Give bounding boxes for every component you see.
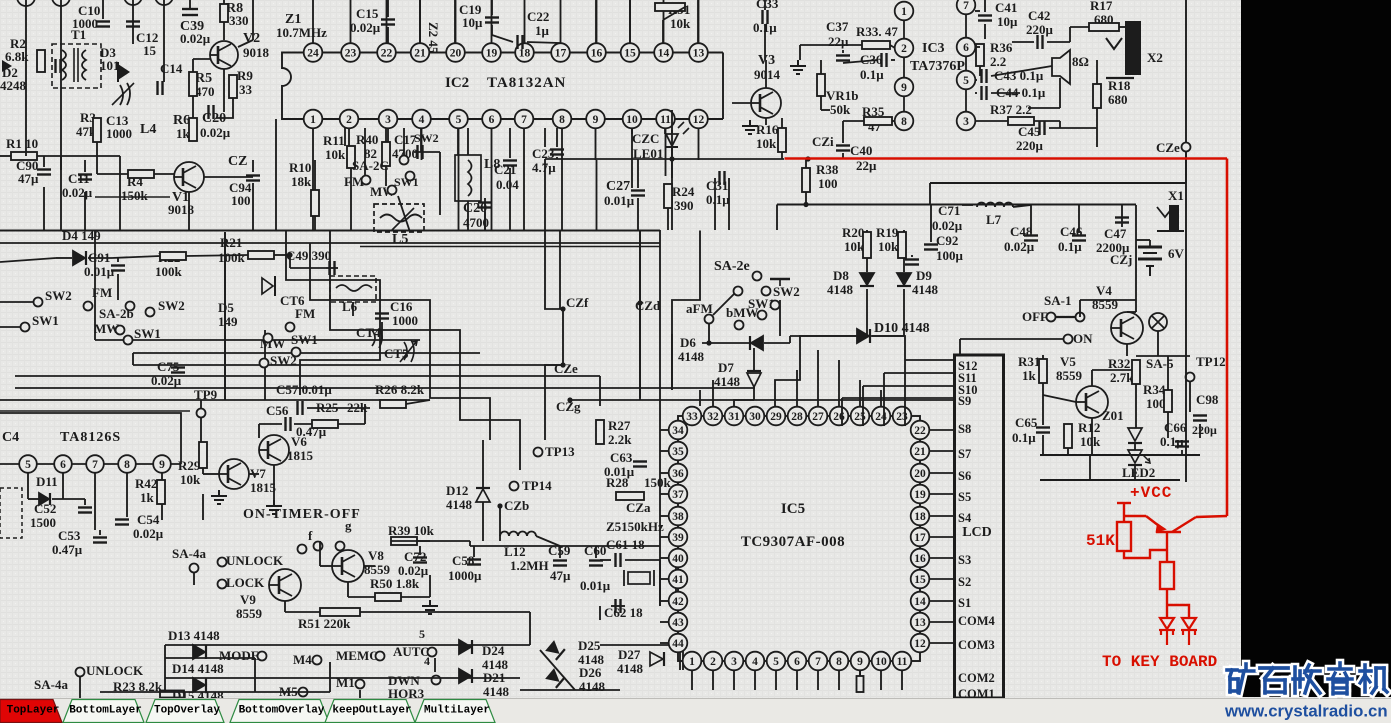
svg-text:12: 12 bbox=[693, 114, 705, 126]
wire bbox=[350, 168, 352, 230]
wire IC2 top pin lead bbox=[386, 0, 388, 43]
wire bbox=[119, 156, 121, 230]
switch contact SW1 bbox=[21, 323, 30, 332]
wire bbox=[1091, 418, 1093, 455]
IC3 pin 3 bbox=[957, 112, 976, 131]
transistor V9 bbox=[269, 569, 301, 601]
switch M5 bbox=[299, 688, 308, 697]
svg-text:CZa: CZa bbox=[626, 500, 651, 515]
resistor R29 bbox=[199, 442, 207, 468]
svg-text:14: 14 bbox=[914, 596, 926, 608]
resistor R2 bbox=[37, 50, 45, 72]
svg-text:M4: M4 bbox=[293, 652, 312, 667]
IC2 pin 12 bbox=[689, 110, 708, 129]
wire bbox=[556, 128, 558, 147]
wire vert x660 bbox=[659, 230, 661, 546]
capacitor C36 bbox=[882, 53, 887, 67]
wire bbox=[728, 178, 730, 230]
switch SW2 ground bar bbox=[770, 278, 790, 280]
wire bbox=[960, 338, 1063, 340]
IC2 pin 17 bbox=[551, 43, 570, 62]
capacitor C17 bbox=[418, 145, 423, 159]
red transistor emitter top bar bbox=[1117, 502, 1131, 504]
IC5 pin 40 bbox=[669, 549, 688, 568]
svg-text:C22: C22 bbox=[527, 9, 549, 24]
wire bbox=[84, 160, 86, 172]
wire bbox=[1136, 239, 1150, 241]
IC2 pin 13 bbox=[689, 43, 708, 62]
wire bbox=[320, 565, 332, 567]
svg-text:100μ: 100μ bbox=[936, 248, 964, 263]
svg-text:S3: S3 bbox=[958, 553, 971, 567]
svg-text:C36: C36 bbox=[860, 52, 883, 67]
svg-text:8: 8 bbox=[124, 459, 130, 471]
capacitor in T1 bbox=[56, 59, 61, 73]
wire IC5 bottom lead bbox=[712, 670, 714, 690]
wire y159 run bbox=[545, 158, 672, 160]
svg-text:CZi: CZi bbox=[812, 134, 834, 149]
svg-text:4.7μ: 4.7μ bbox=[532, 160, 556, 175]
wire IC5 left lead bbox=[660, 557, 669, 559]
wire bottom rail LED row bbox=[1040, 454, 1200, 456]
svg-text:0.02μ: 0.02μ bbox=[398, 563, 429, 578]
inductor L5 winding bbox=[380, 215, 422, 222]
switch contact bbox=[314, 542, 323, 551]
svg-text:10k: 10k bbox=[670, 16, 691, 31]
IC3 pin 9 bbox=[895, 78, 914, 97]
wire bbox=[0, 258, 56, 262]
wire IC2 top pin lead bbox=[312, 0, 314, 43]
resistor R51 bbox=[320, 608, 360, 616]
wire bbox=[1089, 455, 1091, 480]
wire bbox=[348, 596, 375, 598]
wire bbox=[99, 530, 101, 535]
svg-text:UNLOCK: UNLOCK bbox=[226, 553, 284, 568]
switch contact FM bbox=[84, 302, 93, 311]
wire bbox=[0, 410, 190, 412]
svg-text:25: 25 bbox=[854, 411, 866, 423]
capacitor C54 bbox=[115, 520, 129, 525]
svg-text:23: 23 bbox=[345, 48, 357, 60]
wire bbox=[975, 92, 977, 94]
wire IC2 top pin lead bbox=[491, 0, 493, 43]
svg-text:D12: D12 bbox=[446, 483, 468, 498]
svg-text:33: 33 bbox=[239, 82, 253, 97]
wire bbox=[764, 342, 790, 344]
svg-text:13: 13 bbox=[914, 617, 926, 629]
wire bbox=[274, 254, 290, 256]
wire bbox=[781, 152, 783, 159]
wire bbox=[326, 267, 338, 269]
wire bbox=[132, 353, 134, 365]
switch contact bbox=[146, 308, 155, 317]
wire horizontal bus y243 bbox=[0, 242, 660, 244]
red resistor 51K bbox=[1117, 522, 1131, 551]
transistor V5 bbox=[1076, 386, 1108, 418]
resistor R24 bbox=[664, 184, 672, 208]
wire IC2 bottom pin lead bbox=[421, 128, 423, 160]
wire bbox=[347, 582, 349, 597]
red wire to diodes bbox=[1167, 589, 1189, 618]
svg-text:680: 680 bbox=[1108, 92, 1128, 107]
wire bbox=[682, 645, 684, 670]
resistor R16 bbox=[778, 128, 786, 152]
wire bbox=[930, 205, 932, 242]
svg-text:R21: R21 bbox=[220, 235, 242, 250]
resistor R23 bbox=[160, 691, 184, 698]
wire bbox=[314, 216, 316, 230]
wire top supply rail bbox=[930, 182, 1186, 184]
wire bbox=[387, 27, 389, 43]
capacitor C45 bbox=[1040, 121, 1045, 135]
wire bbox=[1199, 424, 1201, 438]
node CZe2 bbox=[1182, 143, 1191, 152]
red transistor Q key bbox=[1124, 516, 1227, 532]
svg-text:8559: 8559 bbox=[1056, 368, 1083, 383]
resistor R38 bbox=[802, 168, 810, 192]
wire bbox=[1096, 60, 1098, 84]
varicap CT4 bbox=[372, 328, 382, 348]
wire bbox=[60, 156, 62, 170]
wire bbox=[132, 0, 134, 44]
svg-text:11: 11 bbox=[897, 656, 908, 668]
wire bbox=[79, 677, 81, 698]
wire bbox=[385, 166, 387, 186]
svg-text:D27: D27 bbox=[618, 647, 641, 662]
IC5 pin 38 bbox=[669, 507, 688, 526]
svg-text:40: 40 bbox=[672, 553, 684, 565]
wire IC2 bottom pin lead bbox=[523, 128, 525, 160]
wire bbox=[232, 98, 234, 112]
resistor R35 bbox=[864, 117, 892, 125]
IC5 pin 6 bbox=[788, 652, 807, 671]
wire bbox=[391, 540, 430, 542]
IC2 pin 18 bbox=[515, 43, 534, 62]
svg-text:100: 100 bbox=[818, 176, 838, 191]
C4 pin 6 bbox=[54, 455, 72, 473]
wire bbox=[252, 160, 254, 172]
wire IC5 to LCD bbox=[929, 578, 954, 580]
svg-text:23: 23 bbox=[896, 411, 908, 423]
svg-text:10k: 10k bbox=[1080, 434, 1101, 449]
svg-text:C65: C65 bbox=[1015, 415, 1038, 430]
wire bbox=[1121, 205, 1123, 227]
wire bbox=[189, 0, 191, 9]
node CZg bbox=[567, 397, 572, 402]
IC2 pin 10 bbox=[623, 110, 642, 129]
resistor R9 bbox=[229, 75, 237, 98]
svg-text:R42: R42 bbox=[135, 476, 157, 491]
svg-text:0.47μ: 0.47μ bbox=[52, 542, 83, 557]
wire bus y340 bbox=[95, 339, 420, 341]
wire S11 feed bbox=[884, 372, 954, 374]
IC5 pin 12 bbox=[911, 634, 930, 653]
svg-text:24: 24 bbox=[307, 48, 319, 60]
wire bbox=[779, 300, 781, 336]
svg-text:TP12: TP12 bbox=[1196, 354, 1226, 369]
svg-text:35: 35 bbox=[672, 446, 684, 458]
wire bbox=[1042, 435, 1044, 455]
svg-text:TP9: TP9 bbox=[194, 387, 218, 402]
svg-text:0.02μ: 0.02μ bbox=[180, 31, 211, 46]
wire bbox=[161, 473, 163, 480]
node CZi bbox=[805, 156, 810, 161]
IC5 pin 29 bbox=[767, 407, 786, 426]
wire bbox=[223, 22, 225, 40]
wire IC5 to LCD bbox=[929, 536, 954, 538]
wire bus y400 right bbox=[570, 399, 954, 401]
svg-text:C56: C56 bbox=[266, 403, 289, 418]
svg-text:SW1: SW1 bbox=[32, 313, 59, 328]
varicap C13 symbol bbox=[120, 83, 130, 105]
wire D10 row bbox=[790, 335, 905, 337]
wire bbox=[381, 322, 383, 340]
wire bbox=[662, 20, 664, 43]
wire bbox=[675, 560, 677, 606]
switch contact g bbox=[336, 542, 345, 551]
wire IC2 top pin lead bbox=[663, 0, 665, 43]
capacitor C98 bbox=[1193, 416, 1207, 421]
wire bbox=[883, 373, 885, 426]
wire bbox=[1059, 78, 1061, 108]
wire bbox=[962, 204, 973, 206]
battery 6V bbox=[1138, 247, 1162, 276]
capacitor C16 bbox=[375, 314, 389, 319]
lamp symbol bbox=[1149, 313, 1167, 331]
LED CZC LE01 bbox=[666, 134, 678, 146]
wire bbox=[975, 10, 980, 12]
svg-text:CZe: CZe bbox=[554, 361, 578, 376]
pin circle fragment top edge bbox=[17, 0, 35, 6]
wire bbox=[161, 504, 163, 520]
svg-text:38: 38 bbox=[672, 511, 684, 523]
svg-text:7: 7 bbox=[521, 114, 527, 126]
wire horizontal y400 bbox=[0, 399, 430, 401]
IC2 pin 16 bbox=[587, 43, 606, 62]
wire right border upper bbox=[1185, 0, 1187, 143]
capacitor C27 bbox=[631, 191, 645, 196]
zener Z01 bbox=[1128, 428, 1142, 441]
wire bbox=[625, 559, 660, 561]
wire stair 2 bbox=[330, 231, 520, 471]
svg-text:10k: 10k bbox=[180, 472, 201, 487]
wire IC2 right edge bbox=[722, 53, 724, 120]
wire bbox=[460, 677, 520, 679]
wire IC2 pin drop bbox=[312, 160, 314, 230]
wire bbox=[60, 0, 62, 230]
wire bbox=[903, 230, 905, 272]
switch contact bbox=[218, 580, 227, 589]
wire bus y388 bbox=[15, 387, 755, 389]
capacitor C57 bbox=[298, 401, 303, 415]
svg-text:C43 0.1μ: C43 0.1μ bbox=[994, 68, 1044, 83]
wire bbox=[473, 546, 475, 557]
layer tab bar background bbox=[0, 698, 1391, 723]
svg-text:0.01μ: 0.01μ bbox=[580, 578, 611, 593]
svg-text:0.1μ: 0.1μ bbox=[1012, 430, 1036, 445]
wire bbox=[764, 24, 766, 60]
wire IC2 top pin lead bbox=[350, 0, 352, 43]
svg-text:OFF: OFF bbox=[1022, 309, 1048, 324]
LCD display box bbox=[955, 355, 1004, 698]
svg-text:C54: C54 bbox=[137, 512, 160, 527]
wire bbox=[258, 424, 260, 438]
wire bbox=[188, 192, 190, 230]
IC5 pin 33 bbox=[683, 407, 702, 426]
IC3 pin 1 bbox=[895, 2, 914, 21]
switch M4 bbox=[313, 656, 322, 665]
wire bbox=[88, 257, 112, 259]
wire IC2 pin drop bbox=[491, 160, 493, 230]
wire bbox=[1028, 107, 1060, 109]
svg-text:www.crystalradio.cn: www.crystalradio.cn bbox=[1224, 702, 1388, 721]
IC5 pin 17 bbox=[911, 528, 930, 547]
resistor R20 bbox=[863, 232, 871, 258]
wire bbox=[697, 0, 699, 43]
wire bbox=[890, 45, 895, 48]
IC5 pin 25 bbox=[851, 407, 870, 426]
svg-text:TopOverlay: TopOverlay bbox=[154, 705, 220, 717]
transistor V8 bbox=[332, 550, 364, 582]
wire bbox=[52, 498, 85, 500]
svg-text:S4: S4 bbox=[958, 511, 972, 525]
IC5 pin 11 bbox=[893, 652, 912, 671]
svg-text:1: 1 bbox=[310, 114, 316, 126]
node CZe bbox=[560, 362, 565, 367]
wire bbox=[671, 147, 673, 178]
svg-text:C49 390: C49 390 bbox=[286, 248, 331, 263]
svg-text:VR1b: VR1b bbox=[826, 88, 859, 103]
svg-text:26: 26 bbox=[833, 411, 845, 423]
svg-text:CT4: CT4 bbox=[356, 325, 381, 340]
transistor V7 bbox=[219, 459, 249, 489]
wire bbox=[911, 255, 913, 257]
svg-text:4148: 4148 bbox=[579, 679, 606, 694]
svg-text:SA-4a: SA-4a bbox=[172, 546, 206, 561]
resistor R3 bbox=[93, 118, 101, 142]
svg-text:24: 24 bbox=[875, 411, 887, 423]
IC3 pin 2 bbox=[895, 39, 914, 58]
svg-text:TP13: TP13 bbox=[545, 444, 575, 459]
wire bbox=[344, 128, 346, 146]
svg-text:21: 21 bbox=[414, 48, 426, 60]
wire bbox=[359, 690, 361, 698]
wire bbox=[1040, 479, 1180, 481]
wire bbox=[273, 465, 275, 500]
wire bbox=[224, 330, 226, 400]
switch contact FM bbox=[362, 176, 371, 185]
svg-text:10μ: 10μ bbox=[997, 14, 1018, 29]
wire horizontal bus y230 bbox=[0, 230, 660, 232]
wire bbox=[482, 440, 484, 488]
wire bbox=[559, 546, 561, 558]
wire vert x95 bbox=[94, 230, 96, 340]
wire bbox=[249, 473, 259, 475]
IC2 pin 15 bbox=[621, 43, 640, 62]
capacitor C72 bbox=[413, 558, 427, 563]
svg-text:SW2: SW2 bbox=[414, 131, 439, 145]
wire bbox=[1012, 41, 1034, 43]
wire bbox=[975, 120, 1008, 122]
wire bbox=[765, 60, 767, 88]
wire bbox=[1049, 127, 1097, 129]
wire bbox=[1096, 128, 1098, 147]
switch contact bbox=[126, 302, 135, 311]
switch contact OFF bbox=[1047, 313, 1056, 322]
svg-text:R11: R11 bbox=[323, 133, 345, 148]
wire IC5 to LCD bbox=[929, 621, 954, 623]
watermark 矿石收音机 hand-drawn glyphs bbox=[1227, 664, 1255, 693]
svg-text:4: 4 bbox=[419, 114, 425, 126]
wire bbox=[252, 183, 254, 230]
diode D8 bbox=[860, 273, 874, 286]
wire bbox=[843, 60, 877, 63]
wire IC2 bottom pin lead bbox=[595, 128, 597, 160]
wire bus y353 bbox=[133, 352, 480, 354]
wire bbox=[979, 66, 981, 76]
wire bbox=[307, 407, 370, 409]
jack X1 bbox=[1157, 207, 1173, 217]
wire S12 feed bbox=[905, 359, 954, 361]
IC5 pin 42 bbox=[669, 592, 688, 611]
svg-text:4148: 4148 bbox=[714, 374, 741, 389]
IC2 pin 11 bbox=[656, 110, 675, 129]
wire bbox=[97, 173, 128, 175]
wire bbox=[259, 423, 282, 425]
wire bbox=[984, 24, 986, 39]
pin circle fragment top edge bbox=[52, 0, 70, 6]
wire bbox=[385, 128, 387, 142]
svg-text:31: 31 bbox=[728, 411, 740, 423]
capacitor C15 bbox=[381, 20, 395, 25]
svg-text:9: 9 bbox=[901, 82, 907, 94]
wire bbox=[96, 142, 98, 174]
svg-text:10k: 10k bbox=[756, 136, 777, 151]
svg-text:22μ: 22μ bbox=[828, 34, 849, 49]
wire bbox=[1059, 121, 1061, 128]
svg-text:C98: C98 bbox=[1196, 392, 1219, 407]
wire bbox=[520, 689, 620, 691]
wire bbox=[1127, 311, 1136, 313]
ground bbox=[742, 120, 758, 134]
ground bbox=[266, 500, 282, 514]
wire IC2 top pin lead bbox=[560, 0, 562, 43]
svg-text:5: 5 bbox=[773, 656, 779, 668]
wire bbox=[1167, 412, 1169, 438]
svg-text:C42: C42 bbox=[1028, 8, 1050, 23]
wire bbox=[400, 611, 530, 613]
crystal Z5 symbol bbox=[628, 572, 650, 584]
svg-text:LCD: LCD bbox=[962, 525, 992, 540]
resistor R34 bbox=[1164, 390, 1172, 412]
wire bbox=[880, 390, 882, 406]
svg-text:101: 101 bbox=[100, 58, 120, 73]
wire bbox=[56, 257, 72, 259]
svg-text:3: 3 bbox=[731, 656, 737, 668]
switch MODE bbox=[258, 652, 267, 661]
switch AUTO bbox=[428, 648, 437, 657]
wire bbox=[904, 360, 906, 426]
svg-text:C21: C21 bbox=[494, 162, 516, 177]
wire bbox=[702, 342, 749, 344]
switch contact bbox=[762, 287, 771, 296]
wire bbox=[892, 120, 895, 122]
wire IC2 bottom pin lead bbox=[665, 128, 667, 160]
wire bbox=[193, 573, 195, 585]
svg-text:13: 13 bbox=[693, 48, 705, 60]
diode D24 bbox=[459, 640, 472, 654]
svg-text:17: 17 bbox=[555, 48, 567, 60]
